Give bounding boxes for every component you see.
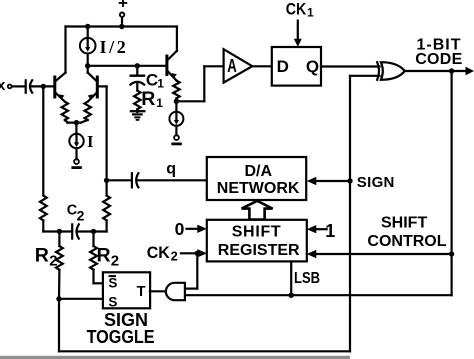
wire S input xyxy=(59,298,103,300)
resistor right branch xyxy=(103,180,110,231)
current source I/2 xyxy=(80,27,96,66)
node sign tap xyxy=(347,178,352,183)
svg-text:S: S xyxy=(108,275,117,290)
wire shift control arrow xyxy=(307,250,452,258)
svg-text:REGISTER: REGISTER xyxy=(218,242,300,259)
node C2 right junction xyxy=(91,229,96,234)
wire XOR lower input xyxy=(350,75,380,77)
svg-text:q: q xyxy=(166,161,176,178)
wire CK2 branch to AND xyxy=(185,253,197,288)
svg-text:1: 1 xyxy=(156,96,163,110)
wire cap to base node xyxy=(31,85,54,87)
svg-text:R: R xyxy=(35,245,49,267)
wire XOR output to edge xyxy=(405,67,474,76)
wire emitter node to amp input xyxy=(176,66,223,101)
node output junction xyxy=(449,68,454,73)
node shift control tap xyxy=(449,251,454,256)
svg-text:S: S xyxy=(108,294,117,309)
svg-text:x: x xyxy=(0,77,6,94)
wire Q2 collector up to I/2 node xyxy=(87,66,89,73)
svg-text:R: R xyxy=(97,245,111,267)
resistor left branch xyxy=(40,86,47,231)
op-amp A xyxy=(224,49,253,82)
capacitor input coupling xyxy=(26,80,33,92)
current source Q3 emitter xyxy=(169,101,183,144)
resistor R2 right xyxy=(90,232,97,284)
overline S bar xyxy=(109,275,116,277)
svg-text:CK: CK xyxy=(286,0,307,18)
svg-text:1: 1 xyxy=(307,6,314,20)
wire C2 rail xyxy=(43,230,106,232)
node Q3 emitter xyxy=(174,99,179,104)
wire top rail xyxy=(66,25,178,27)
flip-flop U1 D-Q xyxy=(272,47,321,86)
svg-text:R: R xyxy=(141,88,155,110)
wire CK1 arrow xyxy=(294,21,302,47)
transistor Q3 xyxy=(167,51,177,81)
wire T to AND output xyxy=(150,290,166,292)
wire input to coupling cap xyxy=(12,85,24,87)
wire bottom rail xyxy=(59,350,350,352)
svg-text:Q: Q xyxy=(306,57,319,76)
svg-text:I: I xyxy=(87,132,93,151)
wire Q2 base to right branch xyxy=(98,86,106,180)
node CK2 branch xyxy=(195,251,200,256)
wire 1 input arrow xyxy=(307,225,327,233)
node rail I/2 tap xyxy=(85,24,90,29)
resistor R1 xyxy=(134,91,140,113)
svg-text:I/2: I/2 xyxy=(100,37,129,57)
wire R2 right to Sbar input xyxy=(94,282,104,284)
svg-text:0: 0 xyxy=(175,219,185,239)
wire 0 input arrow xyxy=(187,225,207,233)
capacitor C1 xyxy=(130,66,144,91)
svg-text:SIGN: SIGN xyxy=(357,174,395,191)
svg-text:1: 1 xyxy=(325,221,335,241)
wire CK2 arrow xyxy=(181,249,207,257)
node C1 tap xyxy=(135,63,140,68)
svg-text:A: A xyxy=(227,56,237,76)
wire q line xyxy=(107,179,131,181)
wire right feedback bus xyxy=(451,71,453,295)
node sign toggle S junction xyxy=(56,296,61,301)
wire amp to D flip-flop xyxy=(252,65,271,67)
box sign toggle xyxy=(103,272,150,308)
wire q cap to DA network xyxy=(137,179,207,181)
and gate U3 xyxy=(166,283,185,300)
transistor Q1 xyxy=(55,73,66,102)
resistor Q3 emitter xyxy=(173,80,179,101)
wire AND lower input from feedback xyxy=(185,294,452,296)
resistor Q2 emitter degeneration xyxy=(81,102,91,123)
wire Q3 collector to rail xyxy=(176,27,178,51)
capacitor C2 xyxy=(72,224,79,238)
svg-text:CODE: CODE xyxy=(415,51,462,68)
node LSB junction xyxy=(289,293,294,298)
svg-text:SHIFT: SHIFT xyxy=(232,224,282,241)
node C2 left junction xyxy=(57,229,62,234)
resistor Q1 emitter degeneration xyxy=(62,102,68,123)
svg-text:2: 2 xyxy=(77,207,85,223)
wire Q1 collector to top rail xyxy=(64,27,66,73)
svg-text:CK: CK xyxy=(147,243,171,262)
scan edge artifact bottom xyxy=(0,356,350,359)
ground xyxy=(131,111,144,120)
svg-text:1: 1 xyxy=(157,76,164,90)
node input junction xyxy=(41,84,46,89)
wire Q output to XOR xyxy=(321,65,380,67)
svg-text:2: 2 xyxy=(111,253,119,270)
power + terminal xyxy=(120,13,124,27)
svg-text:D: D xyxy=(277,57,289,76)
svg-text:2: 2 xyxy=(171,249,178,263)
svg-text:T: T xyxy=(137,284,146,300)
node rail plus tap xyxy=(119,24,124,29)
wire mid vertical bus xyxy=(349,76,351,352)
wire base rail y66 xyxy=(88,65,166,67)
svg-text:D/A: D/A xyxy=(245,163,273,180)
block arrow shift register to DA xyxy=(242,201,273,220)
svg-text:+: + xyxy=(118,0,128,13)
transistor Q2 xyxy=(88,73,98,102)
svg-text:CONTROL: CONTROL xyxy=(367,233,446,250)
box shift register xyxy=(207,220,307,262)
box D/A network xyxy=(207,157,306,200)
svg-text:SHIFT: SHIFT xyxy=(381,215,427,232)
svg-text:TOGGLE: TOGGLE xyxy=(87,327,155,347)
node x input terminal xyxy=(8,85,12,89)
svg-text:2: 2 xyxy=(49,253,57,270)
wire LSB drop xyxy=(290,261,292,295)
wire SIGN arrow into DA xyxy=(307,177,350,185)
current source I xyxy=(69,123,83,168)
wire left bottom vertical xyxy=(58,299,60,352)
node emitter common xyxy=(67,120,81,125)
svg-text:NETWORK: NETWORK xyxy=(217,180,300,197)
svg-text:LSB: LSB xyxy=(294,270,320,287)
capacitor q coupling xyxy=(132,173,139,187)
node I/2 bottom junction xyxy=(85,63,90,68)
xor gate U2 xyxy=(377,62,405,80)
node q junction xyxy=(104,178,109,183)
resistor R2 left xyxy=(56,232,63,299)
